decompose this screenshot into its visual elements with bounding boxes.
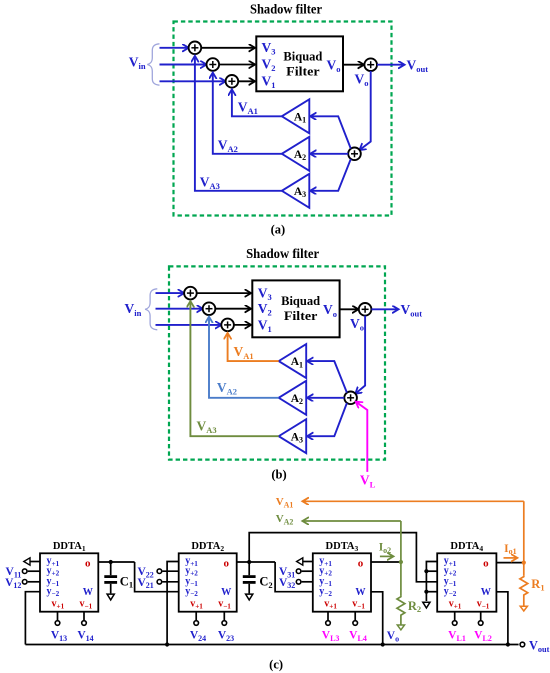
- svg-text:W: W: [481, 587, 492, 598]
- ground below DDTA4 inputs: [423, 602, 430, 608]
- DDTA2 pin labels: [185, 556, 232, 611]
- wire olive vertical VA2/R2: [400, 521, 402, 596]
- summing node S3 (b): [221, 319, 234, 332]
- svg-text:W: W: [221, 587, 232, 598]
- wire DDTA2 y+1 to bottom rail: [167, 562, 179, 645]
- label VA2 (a): [218, 137, 238, 154]
- caption (b): [271, 467, 286, 481]
- label V2 (b): [258, 301, 272, 318]
- biquad filter box (a): [256, 36, 343, 91]
- terminal V21: [137, 577, 178, 590]
- wire VA2 lightblue from A2 to S2 (b): [209, 317, 279, 398]
- wire S3 to V1 (a): [238, 80, 255, 82]
- wire S3 to V1 (b): [234, 324, 251, 326]
- DDTA1 box: [40, 541, 98, 612]
- svg-text:W: W: [355, 587, 366, 598]
- caption (c): [269, 657, 283, 671]
- wire C2 node up and over to DDTA4 y-1: [249, 533, 437, 582]
- summing node feedback (a): [348, 148, 361, 161]
- amplifier A1 (a): [282, 99, 310, 133]
- summing node S2 (b): [203, 302, 216, 315]
- wire to Vout (b): [371, 308, 398, 310]
- wire VA1 orange across top: [303, 500, 524, 502]
- amplifier A3 (b): [279, 419, 307, 453]
- wire VA1 orange from A1 to S3 (b): [228, 333, 279, 361]
- svg-text:DDTA1: DDTA1: [53, 541, 86, 553]
- summing node S2 (a): [207, 58, 220, 71]
- label V1 (a): [262, 73, 276, 90]
- label Io2 with arrow: [379, 542, 394, 557]
- terminal V11: [6, 566, 40, 579]
- label VA2 lightblue (b): [217, 380, 237, 397]
- wire VL into feedback node (b): [356, 402, 368, 472]
- label Vo below wire (b): [350, 316, 364, 333]
- wire feedback node to A3 (b): [307, 403, 347, 436]
- amplifier A3 (a): [282, 174, 310, 208]
- DDTA1 pin labels: [47, 556, 94, 611]
- label V1 (b): [258, 318, 272, 335]
- wire biquad output to summing node (b): [340, 308, 359, 310]
- svg-text:DDTA2: DDTA2: [191, 541, 224, 553]
- wire DDTA1 y-2 to bottom rail: [25, 592, 40, 645]
- amplifier A2 (a): [282, 137, 310, 171]
- svg-text:Biquad: Biquad: [281, 293, 321, 308]
- svg-text:o: o: [483, 558, 489, 570]
- wire C2 node to DDTA3 y-2: [275, 562, 313, 592]
- summing node output (b): [359, 303, 372, 316]
- wire feedback node to A2 (b): [307, 397, 344, 399]
- capacitor C1: [104, 562, 117, 593]
- wire feedback down from output node (a): [360, 71, 371, 150]
- wire VA2 from A2 to S2 (a): [213, 73, 282, 154]
- terminal VL4: [349, 612, 367, 643]
- wire VA3 from A3 to S1 (a): [195, 56, 282, 191]
- wire S2 to V2 (b): [215, 308, 251, 310]
- title Shadow filter (b): [246, 246, 319, 261]
- label Vout (a): [407, 57, 429, 74]
- wire C1 node to DDTA2 y-2: [135, 562, 179, 592]
- terminal Vout (c): [520, 638, 550, 653]
- wire Vin input 2 (a): [160, 64, 207, 66]
- summing node S1 (b): [184, 287, 197, 300]
- label Vin (a): [129, 54, 146, 71]
- svg-text:(c): (c): [269, 657, 283, 671]
- biquad filter box (b): [252, 280, 339, 337]
- label V3 (a): [262, 40, 276, 57]
- label Io1 with arrow: [504, 543, 518, 558]
- svg-text:Shadow filter: Shadow filter: [250, 2, 322, 17]
- label R1: [531, 577, 544, 592]
- wire feedback node to A1 (b): [307, 361, 347, 393]
- ground below R1: [520, 606, 527, 611]
- junction on rail at DDTA2: [165, 642, 169, 646]
- label Biquad Filter (b): [281, 293, 321, 323]
- svg-text:o: o: [358, 558, 364, 570]
- label VA3 (a): [200, 174, 220, 191]
- brace for Vin (a): [147, 44, 159, 85]
- svg-text:o: o: [85, 558, 91, 570]
- wire Vin input 1 (b): [156, 292, 185, 294]
- wire S2 to V2 (a): [219, 64, 255, 66]
- junction on rail at DDTA4 W: [506, 642, 510, 646]
- node Io2 olive: [399, 560, 403, 564]
- terminal V12: [5, 577, 40, 590]
- DDTA1 y+1 output open arrow: [24, 558, 40, 565]
- svg-text:Filter: Filter: [284, 308, 318, 323]
- terminal VL3: [322, 612, 340, 643]
- wire Vin input 3 (a): [160, 80, 226, 82]
- resistor R1: [520, 576, 528, 606]
- node at C2: [247, 560, 251, 564]
- DDTA2 box: [179, 541, 237, 612]
- label VA1 (c): [276, 496, 294, 509]
- wire feedback node to A1 (a): [310, 116, 351, 148]
- caption (a): [271, 223, 286, 237]
- ground below R2: [397, 625, 404, 630]
- svg-text:Shadow filter: Shadow filter: [246, 246, 319, 261]
- wire feedback down from output node (b): [355, 316, 365, 394]
- terminal V24: [190, 612, 206, 643]
- label Biquad Filter (a): [283, 49, 323, 79]
- summing node output (a): [364, 58, 377, 71]
- DDTA3 pin labels: [319, 556, 366, 611]
- wire S1 to V3 (b): [197, 292, 251, 294]
- summing node S3 (a): [226, 75, 239, 88]
- label VA3 olive (b): [197, 418, 217, 435]
- amplifier A1 (b): [279, 344, 307, 378]
- wire DDTA2 o output: [237, 561, 275, 563]
- terminal V22: [137, 566, 178, 579]
- capacitor C2: [243, 562, 256, 593]
- label R2: [408, 599, 421, 614]
- label V3 (b): [258, 285, 272, 302]
- node at C1: [109, 560, 113, 564]
- wire VA1 from A1 to S3 (a): [232, 89, 282, 116]
- terminal VL2: [474, 612, 492, 643]
- bottom rail wire: [25, 644, 518, 646]
- wire Vin input 1 (a): [160, 47, 189, 49]
- wire Vin input 3 (b): [156, 324, 222, 326]
- junction on rail at DDTA3 W: [381, 642, 385, 646]
- wire DDTA1 o output: [98, 561, 134, 563]
- ground below C1: [107, 594, 114, 600]
- label Vo inside box (b): [323, 302, 337, 319]
- label VA2 (c): [276, 513, 294, 526]
- terminal V13: [51, 612, 67, 643]
- DDTA3 y+1 output open arrow: [297, 558, 313, 565]
- wire VA2 olive to left: [303, 520, 401, 522]
- wire DDTA4 grounded inputs: [424, 562, 437, 602]
- summing node S1 (a): [189, 42, 202, 55]
- terminal V14: [77, 612, 93, 643]
- wire feedback node to A2 (a): [310, 153, 348, 155]
- wire DDTA3 o output: [371, 561, 401, 563]
- svg-text:Filter: Filter: [286, 63, 320, 78]
- DDTA4 pin labels: [444, 556, 492, 611]
- summing node feedback (b): [344, 392, 357, 405]
- svg-text:W: W: [83, 587, 94, 598]
- svg-text:o: o: [223, 558, 229, 570]
- label C2: [259, 575, 272, 590]
- wire DDTA3 W to bottom rail: [371, 592, 383, 645]
- label VA1 orange (b): [234, 344, 254, 361]
- terminal V23: [218, 612, 234, 643]
- wire feedback node to A3 (a): [310, 159, 351, 191]
- dashed boundary box (b): [169, 266, 385, 459]
- wire to Vout (a): [377, 64, 405, 66]
- terminal V32: [279, 577, 313, 590]
- wire orange vertical to R1: [523, 501, 525, 576]
- DDTA4 box: [437, 541, 496, 612]
- title Shadow filter (a): [250, 2, 322, 17]
- wire Vin input 2 (b): [156, 308, 203, 310]
- node Io1 orange: [522, 561, 526, 565]
- wire DDTA4 W to bottom rail: [496, 592, 508, 645]
- terminal V31: [279, 566, 313, 579]
- dashed boundary box (a): [174, 22, 392, 216]
- label VL (b): [360, 473, 376, 490]
- label Vo inside box (a): [327, 58, 341, 75]
- svg-text:DDTA3: DDTA3: [326, 541, 359, 553]
- ground below C2: [246, 594, 253, 600]
- label Vout (b): [401, 302, 423, 319]
- label V2 (a): [262, 57, 276, 74]
- svg-text:(a): (a): [271, 223, 286, 237]
- brace for Vin (b): [145, 289, 157, 330]
- svg-text:(b): (b): [271, 467, 286, 481]
- label C1: [120, 574, 133, 589]
- label Vo (c): [387, 630, 399, 643]
- wire biquad output to summing node (a): [343, 64, 364, 66]
- amplifier A2 (b): [279, 381, 307, 415]
- label Vo below wire (a): [355, 72, 369, 89]
- label VA1 (a): [238, 99, 258, 116]
- label Vin (b): [125, 301, 142, 318]
- wire VA3 olive from A3 to S1 (b): [190, 301, 278, 436]
- resistor R2: [397, 596, 405, 625]
- wire DDTA4 o output: [496, 562, 523, 564]
- DDTA3 box: [313, 541, 371, 612]
- wire S1 to V3 (a): [201, 47, 255, 49]
- terminal VL1: [448, 612, 466, 643]
- svg-text:Biquad: Biquad: [283, 49, 323, 64]
- svg-text:DDTA4: DDTA4: [450, 541, 483, 553]
